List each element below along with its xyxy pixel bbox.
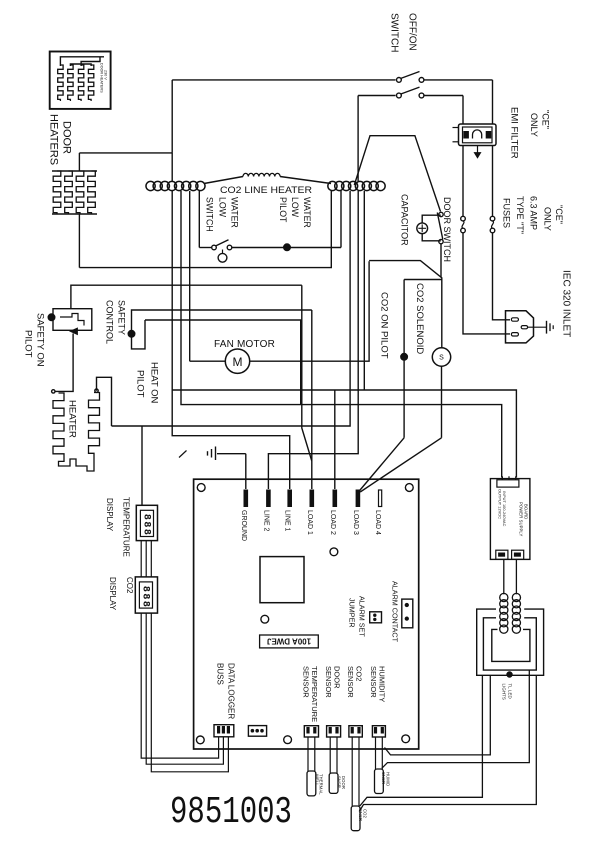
door heater coil 4 bbox=[88, 171, 96, 214]
humidity probe bbox=[375, 769, 384, 794]
data logger connector bbox=[214, 725, 234, 737]
svg-text:FAN MOTOR: FAN MOTOR bbox=[214, 339, 275, 350]
ground symbol main bbox=[217, 453, 246, 455]
wire safety top bbox=[71, 285, 302, 309]
CO2 line heater element bbox=[204, 177, 243, 184]
wire inlet ground bbox=[528, 326, 547, 328]
svg-text:CO2: CO2 bbox=[125, 577, 134, 594]
CO2 on pilot lamp bbox=[401, 353, 408, 360]
heater terminal right bbox=[95, 389, 98, 392]
legend heater coil 3 bbox=[78, 65, 83, 101]
svg-text:SENSOR: SENSOR bbox=[302, 666, 311, 698]
svg-text:ALARM SET: ALARM SET bbox=[358, 596, 367, 637]
aux connector bbox=[248, 726, 266, 737]
wire pilot down bbox=[403, 360, 405, 438]
wire legend link bbox=[70, 64, 91, 66]
CO2 display bbox=[135, 577, 157, 613]
wire cord wire A bbox=[171, 153, 173, 181]
svg-text:PILOT: PILOT bbox=[278, 197, 288, 223]
wire pilot to right edge bbox=[291, 247, 342, 249]
wire stub bank top bbox=[78, 153, 80, 171]
wire legend top rail 2 bbox=[81, 57, 100, 66]
ground symbol inlet bbox=[546, 321, 548, 334]
door switch S2 bbox=[439, 212, 443, 216]
LED light box inner bbox=[492, 629, 530, 661]
svg-text:888: 888 bbox=[141, 514, 152, 537]
connector DOOR SENSOR bbox=[327, 726, 341, 737]
wire motor lead right bbox=[250, 261, 369, 361]
wire legend top rail 1 bbox=[60, 57, 104, 66]
svg-text:9851003: 9851003 bbox=[170, 791, 292, 834]
wire solenoid diag to LOAD3 bbox=[360, 438, 441, 492]
wire led w4 bbox=[359, 675, 536, 811]
wire door probe leads bbox=[329, 737, 331, 773]
fuse F1 bbox=[461, 216, 466, 221]
wire heat-on-pilot feeder LOAD1 bbox=[311, 310, 313, 489]
svg-text:230 V: 230 V bbox=[104, 70, 108, 80]
svg-text:HEAT ON: HEAT ON bbox=[149, 362, 160, 403]
wire motor top bbox=[145, 320, 301, 405]
terminal pin LOAD 1 bbox=[310, 490, 314, 507]
svg-text:HEATER: HEATER bbox=[67, 400, 78, 438]
wire motor lead left bbox=[190, 360, 226, 362]
wire led w3 bbox=[360, 675, 483, 806]
mounting hole bbox=[196, 736, 204, 744]
door probe bbox=[329, 773, 338, 793]
svg-text:LINE 1: LINE 1 bbox=[284, 510, 291, 532]
wire display bus to data logger bbox=[141, 613, 218, 758]
terminal pin LOAD 4 bbox=[379, 490, 382, 507]
svg-text:DATA LOGGER: DATA LOGGER bbox=[227, 663, 236, 719]
svg-text:FUSES: FUSES bbox=[502, 198, 512, 228]
svg-text:SAFETY ON: SAFETY ON bbox=[35, 313, 46, 367]
wire emi feed right bbox=[492, 80, 494, 124]
LED light box middle bbox=[483, 618, 536, 670]
svg-text:INPUT 100-240VAC: INPUT 100-240VAC bbox=[502, 491, 506, 527]
svg-text:DISPLAY: DISPLAY bbox=[108, 577, 117, 611]
wire cord to door switch diag bbox=[354, 136, 440, 212]
svg-text:PILOT: PILOT bbox=[23, 330, 34, 358]
heater terminal left bbox=[52, 390, 55, 393]
float stub bbox=[222, 250, 224, 254]
heater R1 bottom link bbox=[59, 455, 95, 471]
terminal pin LOAD 3 bbox=[356, 490, 360, 507]
svg-text:WATER: WATER bbox=[302, 197, 312, 228]
svg-text:HEATERS: HEATERS bbox=[48, 114, 60, 165]
terminal pin GROUND bbox=[244, 490, 248, 507]
legend heater coil 2 bbox=[68, 65, 73, 101]
door heater coil 1 bbox=[53, 171, 61, 214]
svg-text:SNSR: SNSR bbox=[336, 776, 341, 788]
off/on switch pole 1 bbox=[172, 79, 395, 81]
100A DWEJ label box bbox=[260, 635, 319, 648]
capacitor C1 bbox=[417, 223, 428, 234]
wire led w2 bbox=[382, 670, 530, 768]
svg-text:LOAD 1: LOAD 1 bbox=[306, 510, 313, 535]
relay K1 bbox=[260, 557, 304, 603]
svg-text:DISPLAY: DISPLAY bbox=[105, 498, 114, 532]
LED light box outer bbox=[477, 609, 544, 675]
legend heater coil 4 bbox=[88, 65, 93, 101]
wire cord B down to PS2 bbox=[181, 191, 502, 478]
door heater coil 2 bbox=[65, 171, 73, 214]
wire capacitor top bbox=[422, 215, 441, 223]
mounting hole bbox=[405, 484, 413, 492]
svg-text:M: M bbox=[233, 355, 243, 369]
wire switch feed left bbox=[171, 80, 173, 153]
wire pilot parallel tap bbox=[404, 279, 442, 281]
wire stub bank bottom bbox=[78, 214, 80, 268]
wire pole2 down to heater cord bbox=[357, 96, 359, 182]
svg-text:888: 888 bbox=[140, 586, 151, 609]
svg-text:OFF/ON: OFF/ON bbox=[407, 13, 418, 51]
wire right cord r3 bbox=[112, 191, 351, 426]
wire safety feeder to LOAD1 bbox=[302, 285, 312, 461]
svg-text:SAFETY: SAFETY bbox=[117, 300, 127, 335]
connector CO2 SENSOR bbox=[349, 726, 362, 737]
svg-text:ONLY: ONLY bbox=[543, 207, 553, 231]
EMI filter U1 bbox=[459, 124, 497, 146]
off/on switch pole 2 bbox=[358, 95, 395, 97]
svg-text:LINE 2: LINE 2 bbox=[262, 510, 269, 532]
connector TEMPERATURE SENSOR bbox=[304, 726, 318, 737]
twisted pair left bbox=[500, 593, 508, 601]
IEC 320 inlet J1 bbox=[506, 311, 534, 343]
fuse F2 bbox=[490, 216, 495, 221]
controller board outline bbox=[194, 479, 419, 749]
wire switch to pilot bbox=[232, 247, 284, 249]
wire emi to fuse right bbox=[492, 146, 494, 217]
wire cord C down to motor bbox=[189, 191, 191, 361]
terminal pin LINE 1 bbox=[288, 490, 292, 507]
wire emi to fuse left bbox=[462, 146, 464, 217]
water low pilot lamp bbox=[284, 244, 291, 251]
wire led w1 bbox=[385, 675, 491, 755]
wire door switch down bbox=[440, 244, 442, 278]
wire fuse2 to inlet bbox=[493, 233, 511, 320]
svg-text:SWITCH: SWITCH bbox=[205, 197, 215, 232]
wire display feeder bbox=[141, 426, 143, 505]
svg-text:LOAD 2: LOAD 2 bbox=[329, 510, 336, 535]
svg-text:BOARD: BOARD bbox=[524, 504, 529, 519]
fan motor M1 bbox=[225, 349, 249, 373]
wire pilot diag to LOAD3 bbox=[359, 438, 404, 492]
terminal pin LOAD 2 bbox=[333, 490, 337, 507]
power supply board PS1 bbox=[490, 479, 530, 560]
legend heater coil 1 bbox=[58, 65, 63, 101]
alarm set jumper block bbox=[370, 612, 382, 623]
mounting hole bbox=[330, 548, 338, 556]
EMI filter ground stub bbox=[477, 146, 479, 153]
svg-text:JUMPER: JUMPER bbox=[348, 598, 357, 628]
svg-text:POWER SUPPLY: POWER SUPPLY bbox=[519, 502, 524, 537]
heat on pilot lamp bbox=[128, 330, 135, 337]
svg-text:TEMPERATURE: TEMPERATURE bbox=[122, 497, 131, 557]
water low switch S1 bbox=[199, 247, 211, 249]
door heater coil 3 bbox=[76, 171, 84, 214]
svg-text:ALARM CONTACT: ALARM CONTACT bbox=[391, 581, 400, 643]
wire right cord r5 bbox=[363, 191, 365, 390]
svg-text:TYPE "T": TYPE "T" bbox=[515, 196, 525, 234]
door heater bank top rail bbox=[52, 170, 97, 172]
mounting hole bbox=[197, 484, 205, 492]
svg-text:DOOR SWITCH: DOOR SWITCH bbox=[442, 197, 452, 262]
CO2 solenoid L1 bbox=[432, 348, 450, 366]
wire PS feed 1 bbox=[172, 390, 516, 478]
wire fuse1 to inlet bbox=[463, 233, 510, 334]
svg-text:OUTPUT 12VDC: OUTPUT 12VDC bbox=[498, 489, 502, 519]
svg-text:LIGHTS: LIGHTS bbox=[502, 684, 507, 700]
wire LOAD2 tap bbox=[334, 390, 336, 489]
wire CO2 probe leads bbox=[351, 737, 353, 806]
door heaters legend box bbox=[50, 52, 111, 109]
wire cord A down to LINE1 bbox=[172, 191, 290, 489]
mounting hole bbox=[261, 615, 269, 623]
wire right cord r1 to bank bbox=[79, 191, 331, 268]
svg-text:SENSOR: SENSOR bbox=[324, 666, 333, 698]
CO2 line heater cord right bbox=[328, 181, 337, 190]
svg-text:GROUND: GROUND bbox=[240, 510, 247, 541]
wire heater net right bbox=[97, 377, 112, 426]
svg-text:CAPACITOR: CAPACITOR bbox=[400, 194, 410, 246]
mounting hole bbox=[402, 735, 410, 743]
svg-text:CO2 ON PILOT: CO2 ON PILOT bbox=[379, 292, 390, 359]
heater R1 coil right bbox=[89, 393, 100, 456]
heater R1 coil left bbox=[53, 393, 64, 462]
wire right cord r4 to LINE2 bbox=[268, 191, 358, 489]
wire solenoid down bbox=[441, 366, 443, 438]
door heater bank bottom rail bbox=[52, 213, 97, 215]
svg-text:BUSS: BUSS bbox=[216, 663, 225, 685]
svg-text:PILOT: PILOT bbox=[135, 370, 146, 398]
svg-text:6.3 AMP: 6.3 AMP bbox=[529, 196, 539, 230]
wire water-low left edge bbox=[198, 191, 200, 248]
alarm contact block bbox=[402, 599, 413, 628]
wire ps output left bbox=[503, 559, 505, 594]
svg-text:DOOR HEATERS: DOOR HEATERS bbox=[100, 63, 104, 93]
wire top rail bbox=[79, 152, 172, 154]
svg-text:100A DWEJ: 100A DWEJ bbox=[267, 637, 311, 646]
svg-text:DOOR: DOOR bbox=[61, 121, 73, 154]
svg-text:ONLY: ONLY bbox=[529, 113, 539, 137]
wire emi feed left bbox=[462, 96, 464, 125]
svg-text:SWITCH: SWITCH bbox=[389, 13, 400, 52]
wire ground to pin bbox=[245, 454, 247, 489]
temperature probe bbox=[307, 771, 316, 796]
svg-text:CONTROL: CONTROL bbox=[105, 300, 115, 344]
mounting hole bbox=[284, 736, 292, 744]
svg-text:LOAD 4: LOAD 4 bbox=[374, 510, 381, 535]
svg-text:SENSOR: SENSOR bbox=[346, 666, 355, 698]
svg-text:EMI FILTER: EMI FILTER bbox=[509, 107, 520, 159]
svg-text:IEC 320 INLET: IEC 320 INLET bbox=[561, 270, 572, 337]
svg-text:SNSR: SNSR bbox=[381, 772, 386, 784]
wire humidity probe leads bbox=[375, 737, 377, 769]
terminal pin LINE 2 bbox=[267, 490, 271, 507]
svg-text:SENSOR: SENSOR bbox=[369, 666, 378, 698]
svg-text:CO2 LINE HEATER: CO2 LINE HEATER bbox=[220, 185, 312, 196]
wire temperature probe leads bbox=[307, 737, 309, 771]
wire heat-on-pilot bottom bbox=[132, 320, 146, 349]
svg-text:TL LED: TL LED bbox=[508, 684, 513, 699]
svg-text:LOW: LOW bbox=[218, 197, 228, 218]
svg-text:S: S bbox=[439, 355, 444, 362]
twisted pair right bbox=[512, 593, 520, 601]
svg-text:WATER: WATER bbox=[230, 197, 240, 228]
wire solenoid top run bbox=[369, 261, 442, 348]
CO2 line heater cord left bbox=[146, 181, 155, 190]
wire water-low right edge bbox=[340, 190, 342, 248]
svg-text:"CE": "CE" bbox=[541, 110, 551, 129]
wire displays link bbox=[140, 541, 142, 577]
safety on pilot lamp bbox=[48, 314, 55, 321]
wire safety to heater bbox=[55, 334, 74, 392]
svg-text:CO2 SOLENOID: CO2 SOLENOID bbox=[414, 283, 425, 354]
CO2 probe bbox=[351, 806, 360, 831]
LED box node bbox=[507, 672, 512, 677]
svg-text:WELL: WELL bbox=[314, 774, 319, 786]
svg-text:LOAD 3: LOAD 3 bbox=[352, 510, 359, 535]
connector HUMIDITY SENSOR bbox=[372, 726, 385, 737]
safety control contact arrow bbox=[70, 328, 78, 335]
power supply output connectors bbox=[496, 550, 508, 559]
temperature display bbox=[136, 505, 157, 540]
svg-text:SNSR: SNSR bbox=[358, 809, 363, 821]
wire capacitor bottom bbox=[422, 234, 441, 241]
svg-text:"CE": "CE" bbox=[554, 205, 564, 224]
svg-text:LOW: LOW bbox=[290, 197, 300, 218]
safety control S3 bbox=[53, 309, 92, 331]
wire heat-on-pilot top bbox=[132, 310, 312, 331]
wire ps output right bbox=[515, 559, 517, 594]
